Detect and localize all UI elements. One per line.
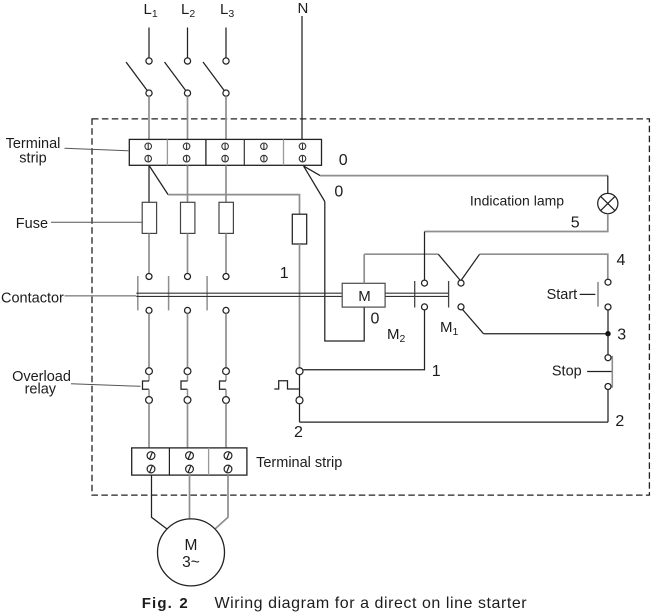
terminal X2-2 screws	[186, 452, 194, 473]
fuse F1	[142, 202, 156, 233]
svg-text:0: 0	[371, 311, 380, 328]
svg-text:Contactor: Contactor	[1, 290, 64, 306]
wire 4 horizontal right section	[480, 254, 608, 279]
wire control phase tap from X1-1	[149, 165, 168, 194]
wire F2 to contactor	[187, 233, 189, 273]
wire V arm left to M1 contact	[438, 254, 461, 281]
wire contactor to overload phase 3	[225, 313, 227, 367]
svg-text:Indication lamp: Indication lamp	[470, 192, 564, 208]
terminal X1-5 screws	[299, 143, 306, 162]
overload relay heater phase 2	[181, 368, 191, 404]
wire 4 horizontal left section	[364, 253, 438, 255]
wire F4 to overload contact	[299, 244, 301, 368]
aux linkage bar right	[448, 281, 450, 308]
svg-text:relay: relay	[25, 382, 57, 398]
wire N tap to coil return	[304, 166, 325, 201]
wire X2-1 to motor	[152, 475, 168, 529]
fuse F4 control	[292, 214, 306, 244]
overload trip contact	[274, 368, 303, 404]
node 3 junction dot	[605, 331, 610, 336]
wire switch L2 to terminal strip	[187, 96, 189, 139]
leader overload label	[71, 384, 141, 387]
stop button S2	[587, 355, 612, 390]
aux contact M1 (holding)	[458, 280, 464, 310]
svg-text:1: 1	[432, 363, 441, 380]
leader contactor label	[65, 295, 137, 297]
contactor coil M	[342, 283, 385, 307]
svg-text:3: 3	[617, 327, 626, 344]
wire start bottom to node 3	[607, 310, 609, 334]
wire node 3 to stop button	[607, 334, 609, 355]
svg-text:strip: strip	[19, 150, 46, 166]
overload relay heater phase 3	[220, 368, 230, 404]
contactor mechanical linkage bar 2	[168, 276, 170, 310]
terminal X2-1 screws	[147, 452, 155, 473]
enclosure dashed border	[92, 119, 649, 495]
svg-text:Fuse: Fuse	[16, 216, 48, 232]
aux linkage bar left	[414, 281, 416, 308]
wire 5 lamp bottom to M2 contact	[425, 214, 608, 232]
terminal strip X2 (bottom)	[132, 448, 247, 475]
svg-text:M: M	[358, 288, 371, 305]
svg-text:2: 2	[615, 413, 624, 430]
svg-text:L3: L3	[220, 1, 234, 20]
svg-text:L2: L2	[181, 1, 195, 20]
aux contact M2 (lamp)	[422, 280, 428, 310]
indication lamp H1	[598, 193, 618, 213]
svg-text:Fig.: Fig.	[142, 595, 173, 612]
wire V arm right from M1 contact	[461, 254, 480, 280]
wire node 3 horizontal	[484, 333, 609, 335]
terminal strip X1 (top)	[129, 139, 321, 165]
svg-text:Start: Start	[547, 287, 578, 303]
overload relay heater phase 1	[143, 368, 153, 404]
wire L1 drop	[148, 28, 150, 58]
switch Q1 phase L3	[203, 58, 229, 96]
start button S1	[580, 279, 611, 310]
svg-text:1: 1	[280, 265, 289, 282]
wire overload to lower strip phase 2	[187, 403, 189, 448]
wire lamp top connection	[607, 176, 609, 194]
svg-text:M1: M1	[440, 319, 459, 338]
wire X2-3 to motor	[215, 475, 228, 529]
wire N tap to indication lamp	[304, 166, 321, 176]
svg-text:Wiring diagram for a direct on: Wiring diagram for a direct on line star…	[215, 595, 528, 612]
wire 0 horizontal to lamp	[320, 175, 608, 177]
wire X1-3 to fuse F3	[225, 165, 227, 202]
svg-text:N: N	[298, 0, 309, 17]
contactor linkage double line left	[136, 292, 342, 294]
wire switch L1 to terminal strip	[148, 96, 150, 139]
wire switch L3 to terminal strip	[225, 96, 227, 139]
switch Q1 phase L1	[126, 58, 152, 96]
svg-text:L1: L1	[144, 1, 158, 20]
wire overload contact to wire 2	[299, 404, 301, 422]
wire coil top	[363, 254, 365, 283]
fuse F3	[219, 202, 233, 233]
wire M1 holding blade	[462, 309, 484, 334]
terminal X1-4 screws	[261, 143, 268, 162]
wire control phase horizontal to control fuse	[168, 195, 299, 215]
wire L3 drop	[225, 28, 227, 58]
svg-text:2: 2	[179, 595, 187, 612]
fuse F2	[181, 202, 195, 233]
wire overload to lower strip phase 1	[148, 403, 150, 448]
wire lamp return to M2 aux top	[424, 232, 426, 281]
svg-text:4: 4	[617, 252, 626, 269]
wire F1 to contactor	[148, 233, 150, 273]
svg-text:5: 5	[571, 215, 580, 232]
wire N drop	[301, 16, 303, 139]
wire contactor to overload phase 1	[148, 313, 150, 367]
wire X1-2 to fuse F2	[187, 165, 189, 202]
svg-text:M: M	[185, 537, 198, 554]
terminal X1-1 screws	[145, 143, 152, 162]
terminal X1-3 screws	[222, 143, 229, 162]
svg-text:Terminal strip: Terminal strip	[256, 455, 342, 471]
wire contactor to overload phase 2	[187, 313, 189, 367]
svg-text:Stop: Stop	[552, 364, 582, 380]
wire X1-1 to fuse F1	[148, 165, 150, 202]
contactor main contact phase 2	[185, 274, 191, 314]
motor M 3~	[158, 519, 225, 586]
terminal X2-3 screws	[224, 452, 232, 473]
wire X2-2 to motor	[189, 475, 191, 519]
wire stop bottom to wire 2	[607, 390, 609, 423]
wire 2 horizontal	[300, 421, 609, 423]
svg-text:2: 2	[294, 424, 303, 441]
wire L2 drop	[187, 28, 189, 58]
wire F3 to contactor	[225, 233, 227, 273]
leader fuse label	[51, 221, 142, 223]
contactor linkage double line right	[385, 292, 449, 294]
svg-text:M2: M2	[387, 326, 406, 345]
contactor main contact phase 1	[146, 274, 152, 314]
svg-text:0: 0	[339, 152, 348, 169]
wire coil return vertical	[325, 202, 364, 342]
leader terminal strip label	[65, 148, 130, 151]
svg-text:3~: 3~	[182, 554, 200, 571]
contactor main contact phase 3	[223, 274, 229, 314]
switch Q1 phase L2	[165, 58, 191, 96]
wire 1 from M2 aux bottom to overload contact	[303, 310, 424, 370]
terminal X1-2 screws	[183, 143, 190, 162]
contactor mechanical linkage bar 3	[206, 276, 208, 310]
wire overload to lower strip phase 3	[225, 403, 227, 448]
contactor mechanical linkage bar 1	[137, 276, 139, 310]
svg-text:0: 0	[334, 184, 343, 201]
